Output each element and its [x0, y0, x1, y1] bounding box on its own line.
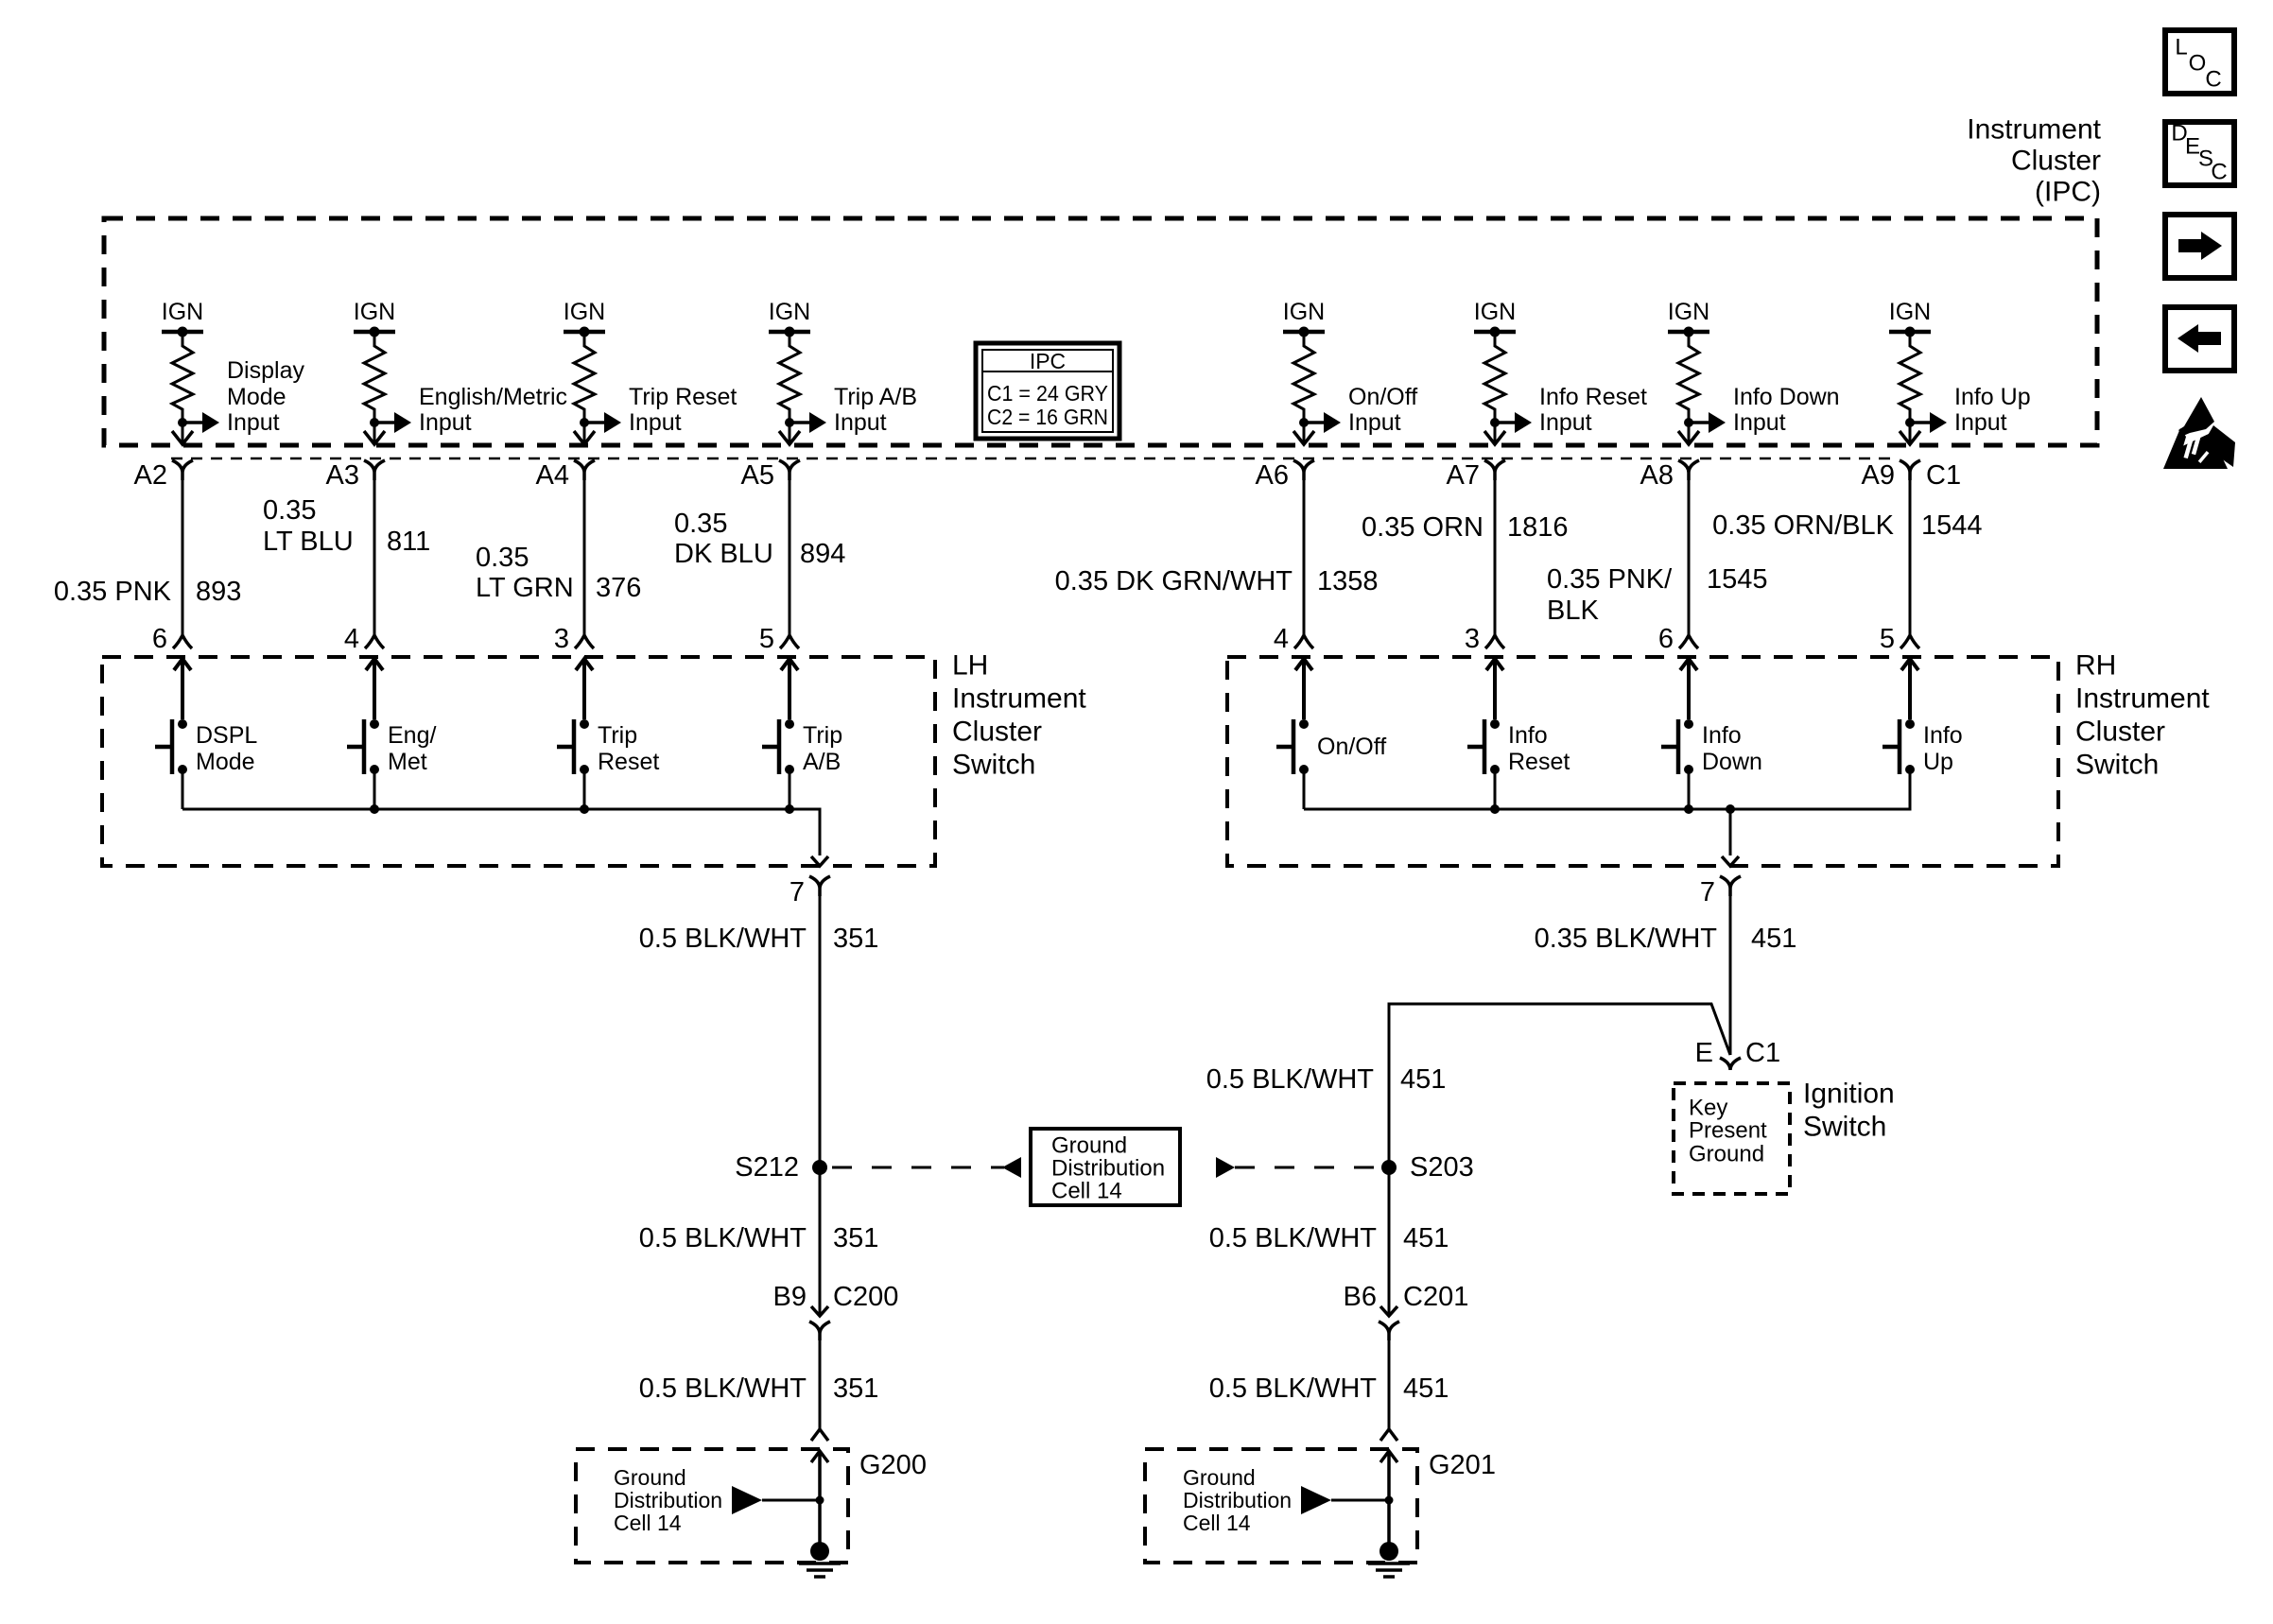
svg-text:7: 7 — [1700, 877, 1715, 907]
svg-text:451: 451 — [1403, 1223, 1449, 1253]
svg-text:Cluster: Cluster — [952, 717, 1042, 748]
wire: pin 5 into switch — [781, 659, 798, 719]
svg-text:3: 3 — [554, 624, 569, 654]
connector C1 boundary dashed line — [171, 458, 1899, 460]
wire: R6 to IPC pin A7 — [1494, 423, 1497, 443]
IGN supply node (A7 column) — [1474, 299, 1516, 337]
svg-text:C1 = 24 GRY: C1 = 24 GRY — [987, 381, 1108, 406]
svg-text:Ground: Ground — [1051, 1133, 1127, 1159]
arrow: LH bus exits box at pin 7 — [811, 856, 828, 866]
svg-text:Input: Input — [1733, 409, 1786, 436]
pushbutton switch: DSPL Mode switch — [155, 719, 257, 775]
svg-text:Info: Info — [1702, 722, 1742, 749]
svg-text:351: 351 — [833, 1223, 878, 1253]
connector pin 6 (switch connector) — [173, 635, 192, 648]
connector pin A6 (IPC C1 female) — [1293, 460, 1314, 480]
svg-text:IGN: IGN — [564, 299, 605, 325]
wire: pin 6 into switch — [174, 659, 191, 719]
svg-text:Reset: Reset — [1508, 749, 1570, 775]
connector pin A2 (IPC C1 female) — [172, 460, 193, 480]
arrow inside G201 — [1301, 1486, 1331, 1514]
svg-text:G201: G201 — [1429, 1450, 1496, 1480]
svg-text:1544: 1544 — [1921, 510, 1983, 541]
pushbutton switch: Info Up switch — [1883, 719, 1963, 775]
svg-text:894: 894 — [800, 539, 845, 569]
svg-text:Cluster: Cluster — [2075, 717, 2165, 748]
label: English/Metric Input — [419, 384, 567, 436]
wire: RH switch common bus — [1304, 769, 1910, 809]
IGN supply node (A8 column) — [1668, 299, 1709, 337]
svg-text:Trip A/B: Trip A/B — [834, 384, 917, 410]
node: R2 output junction — [370, 418, 379, 427]
svg-text:0.5 BLK/WHT: 0.5 BLK/WHT — [639, 924, 807, 954]
svg-text:0.5 BLK/WHT: 0.5 BLK/WHT — [1206, 1064, 1375, 1095]
icon: ESD sensitive symbol — [2163, 397, 2235, 469]
wire 351 S212 to C200 — [819, 1167, 822, 1316]
wire 1545 (0.35 PNK/ BLK) — [1688, 473, 1691, 635]
svg-text:On/Off: On/Off — [1348, 384, 1417, 410]
wire: pin 3 into switch — [1486, 659, 1503, 719]
svg-text:Switch: Switch — [2075, 750, 2159, 781]
wire 893 (0.35 PNK) — [182, 473, 184, 635]
svg-text:IPC: IPC — [1030, 349, 1066, 373]
connector pin 4 (switch connector) — [1294, 635, 1313, 648]
Key Present Ground dashed box (Ignition Switch) — [1674, 1083, 1790, 1194]
connector pin 7 (LH switch) — [809, 876, 830, 896]
wire: dashed reference Ground Distribution to S203 — [1216, 1157, 1235, 1178]
wire: R1 to IPC pin A2 — [182, 423, 184, 443]
wire into G201 ground — [1380, 1451, 1397, 1551]
IGN supply node (A4 column) — [564, 299, 605, 337]
svg-text:IGN: IGN — [162, 299, 203, 325]
svg-text:Input: Input — [1539, 409, 1592, 436]
connector B6 C201 (in-line) — [1380, 1306, 1397, 1316]
svg-text:Info Up: Info Up — [1954, 384, 2031, 410]
IPC connector legend box (C1=24 GRY, C2=16 GRN) — [976, 343, 1119, 439]
wire: LH switch common bus — [182, 809, 820, 855]
svg-text:0.35 DK GRN/WHT: 0.35 DK GRN/WHT — [1055, 566, 1293, 596]
wire 351 (0.5 BLK/WHT) pin7 to S212 — [819, 896, 822, 1167]
pushbutton switch: On/Off switch — [1276, 719, 1386, 774]
svg-text:Cell 14: Cell 14 — [614, 1511, 682, 1535]
icon: LOC button — [2165, 30, 2234, 94]
svg-text:Ground: Ground — [1689, 1142, 1764, 1167]
label: Info Reset Input — [1539, 384, 1647, 436]
IGN supply node (A3 column) — [354, 299, 395, 337]
arrow: RH bus exits box at pin 7 — [1722, 856, 1739, 866]
svg-text:Switch: Switch — [952, 750, 1035, 781]
svg-text:Cluster: Cluster — [2011, 146, 2101, 177]
svg-text:E: E — [1695, 1038, 1713, 1068]
svg-text:A6: A6 — [1256, 460, 1289, 491]
resistor R7 (pull-up to IGN) — [1678, 332, 1699, 420]
svg-text:Switch: Switch — [1803, 1112, 1886, 1143]
svg-text:1545: 1545 — [1707, 564, 1768, 595]
pushbutton switch: Eng/Met switch — [347, 719, 436, 775]
label: Trip Reset Input — [629, 384, 737, 436]
connector at G200 entry — [811, 1429, 828, 1441]
svg-text:BLK: BLK — [1547, 596, 1599, 626]
svg-text:C1: C1 — [1926, 460, 1961, 491]
svg-text:1358: 1358 — [1317, 566, 1379, 596]
label: LH Instrument Cluster Switch — [952, 650, 1086, 781]
svg-text:6: 6 — [1658, 624, 1674, 654]
resistor R1 (pull-up to IGN) — [172, 332, 193, 420]
resistor R2 (pull-up to IGN) — [364, 332, 385, 420]
label: On/Off Input — [1348, 384, 1417, 436]
ground G200 dashed box — [576, 1449, 848, 1563]
svg-text:0.5 BLK/WHT: 0.5 BLK/WHT — [1209, 1223, 1378, 1253]
wire: pin 4 into switch — [366, 659, 383, 719]
label: Ground Distribution Cell 14 (G200) — [614, 1465, 722, 1535]
icon: DESC button — [2165, 121, 2234, 186]
svg-text:B6: B6 — [1344, 1282, 1377, 1312]
wire: Trip Reset switch to common bus — [583, 769, 586, 809]
wire: pin 5 into switch — [1901, 659, 1918, 719]
wire: On/Off switch to common bus — [1303, 769, 1306, 809]
wire: Info Reset switch to common bus — [1494, 769, 1497, 809]
svg-text:Instrument: Instrument — [1967, 114, 2101, 146]
svg-text:811: 811 — [387, 527, 430, 557]
svg-text:451: 451 — [1400, 1064, 1446, 1095]
svg-text:Key: Key — [1689, 1096, 1727, 1121]
signal arrow: Trip A/B input — [789, 421, 809, 424]
svg-text:C201: C201 — [1403, 1282, 1468, 1312]
pushbutton switch: Trip Reset switch — [557, 719, 659, 775]
connector pin A7 (IPC C1 female) — [1484, 460, 1505, 480]
RH Instrument Cluster Switch dashed box — [1227, 657, 2058, 866]
node: bus junction at Eng/Met — [370, 804, 379, 814]
svg-text:7: 7 — [789, 877, 805, 907]
wire: pin 4 into switch — [1295, 659, 1312, 719]
svg-text:English/Metric: English/Metric — [419, 384, 567, 410]
wire 451 riser S203 to E C1 — [1389, 1004, 1730, 1161]
svg-text:376: 376 — [596, 573, 641, 603]
svg-text:Input: Input — [227, 409, 280, 436]
resistor R6 (pull-up to IGN) — [1484, 332, 1505, 420]
icon: right arrow button — [2165, 215, 2234, 278]
label: RH Instrument Cluster Switch — [2075, 650, 2210, 781]
svg-text:Trip: Trip — [598, 722, 637, 749]
svg-text:0.35: 0.35 — [674, 509, 727, 539]
connector pin A8 (IPC C1 female) — [1678, 460, 1699, 480]
wire 451 C201 to G201 — [1388, 1340, 1391, 1429]
label: Ignition Switch — [1803, 1079, 1895, 1143]
node: bus junction at Trip A/B — [785, 804, 794, 814]
IGN supply node (A9 column) — [1889, 299, 1931, 337]
connector pin A3 (IPC C1 female) — [364, 460, 385, 480]
label: Ground Distribution Cell 14 (G201) — [1183, 1465, 1292, 1535]
svg-text:Instrument: Instrument — [2075, 683, 2210, 715]
node: R8 output junction — [1905, 418, 1915, 427]
label: Trip A/B Input — [834, 384, 917, 436]
svg-text:0.35: 0.35 — [476, 543, 529, 573]
signal arrow: Info Reset input — [1495, 421, 1515, 424]
wire: R8 to IPC pin A9 — [1909, 423, 1912, 443]
wire 811 (0.35 LT BLU) — [373, 473, 376, 635]
wire: Eng/Met switch to common bus — [373, 769, 376, 809]
svg-text:IGN: IGN — [1889, 299, 1931, 325]
IGN supply node (A2 column) — [162, 299, 203, 337]
svg-text:LT GRN: LT GRN — [476, 573, 574, 603]
wire: DSPL Mode switch to common bus — [182, 769, 184, 809]
svg-text:Up: Up — [1923, 749, 1953, 775]
svg-text:Input: Input — [1954, 409, 2007, 436]
svg-text:A9: A9 — [1862, 460, 1895, 491]
pushbutton switch: Info Down switch — [1661, 719, 1762, 775]
resistor R8 (pull-up to IGN) — [1900, 332, 1920, 420]
svg-text:(IPC): (IPC) — [2035, 177, 2101, 208]
signal arrow: Trip Reset input — [584, 421, 604, 424]
svg-text:Ignition: Ignition — [1803, 1079, 1895, 1110]
svg-text:Present: Present — [1689, 1118, 1767, 1144]
node: R4 output junction — [785, 418, 794, 427]
svg-text:C: C — [2211, 160, 2227, 185]
svg-text:451: 451 — [1403, 1373, 1449, 1404]
label: Display Mode Input — [227, 357, 304, 436]
svg-text:L: L — [2175, 35, 2187, 60]
wire 1358 (0.35 DK GRN/WHT) — [1303, 473, 1306, 635]
wire: dashed reference S212 to Ground Distribution — [832, 1166, 1004, 1169]
node: R1 output junction — [178, 418, 187, 427]
signal arrow: Info Up input — [1910, 421, 1930, 424]
connector pin 3 (switch connector) — [575, 635, 594, 648]
IGN supply node (A5 column) — [769, 299, 810, 337]
svg-text:A/B: A/B — [803, 749, 841, 775]
title: Instrument Cluster (IPC) — [1967, 114, 2101, 208]
svg-text:C200: C200 — [833, 1282, 898, 1312]
Instrument Cluster (IPC) dashed box — [104, 218, 2097, 445]
svg-text:Reset: Reset — [598, 749, 659, 775]
wire: R4 to IPC pin A5 — [789, 423, 791, 443]
wire: R5 to IPC pin A6 — [1303, 423, 1306, 443]
wire 1544 (0.35 ORN/BLK) — [1909, 473, 1912, 635]
svg-text:Cell 14: Cell 14 — [1183, 1511, 1251, 1535]
node S203 (splice) — [1381, 1160, 1397, 1175]
node S212 (splice) — [812, 1160, 827, 1175]
connector E of C1 (ignition switch) — [1720, 1058, 1741, 1070]
svg-text:IGN: IGN — [769, 299, 810, 325]
svg-text:0.5 BLK/WHT: 0.5 BLK/WHT — [639, 1373, 807, 1404]
svg-text:3: 3 — [1465, 624, 1480, 654]
resistor R4 (pull-up to IGN) — [779, 332, 800, 420]
wire: Trip A/B switch to common bus — [789, 769, 791, 809]
svg-text:S203: S203 — [1410, 1152, 1474, 1183]
svg-text:A8: A8 — [1640, 460, 1674, 491]
svg-text:351: 351 — [833, 924, 878, 954]
node: bus junction at Trip Reset — [580, 804, 589, 814]
svg-text:Trip: Trip — [803, 722, 842, 749]
svg-text:O: O — [2189, 51, 2207, 77]
svg-text:Trip Reset: Trip Reset — [629, 384, 737, 410]
wire into G200 ground — [811, 1451, 828, 1551]
svg-text:Distribution: Distribution — [1051, 1156, 1165, 1182]
svg-text:IGN: IGN — [1474, 299, 1516, 325]
svg-text:IGN: IGN — [354, 299, 395, 325]
connector pin 6 (switch connector) — [1679, 635, 1698, 648]
svg-text:0.35 ORN: 0.35 ORN — [1362, 512, 1484, 543]
svg-text:On/Off: On/Off — [1317, 734, 1386, 760]
svg-text:351: 351 — [833, 1373, 878, 1404]
label: Info Up Input — [1954, 384, 2031, 436]
svg-text:5: 5 — [1880, 624, 1895, 654]
signal arrow: On/Off input — [1304, 421, 1324, 424]
node: R7 output junction — [1684, 418, 1693, 427]
svg-text:Mode: Mode — [227, 384, 286, 410]
label: connector C1 — [1926, 460, 1961, 491]
svg-text:Info: Info — [1923, 722, 1963, 749]
svg-text:A2: A2 — [134, 460, 167, 491]
node: G201 tap junction — [1385, 1496, 1394, 1505]
svg-text:Info Down: Info Down — [1733, 384, 1840, 410]
resistor R5 (pull-up to IGN) — [1293, 332, 1314, 420]
ground symbol G201 — [1368, 1542, 1410, 1577]
node: bus junction at Info Reset — [1490, 804, 1500, 814]
svg-text:Down: Down — [1702, 749, 1762, 775]
wire 351 C200 to G200 — [819, 1340, 822, 1429]
svg-text:IGN: IGN — [1668, 299, 1709, 325]
connector pin A5 (IPC C1 female) — [779, 460, 800, 480]
wire: pin 3 into switch — [576, 659, 593, 719]
svg-text:IGN: IGN — [1283, 299, 1325, 325]
svg-text:A3: A3 — [326, 460, 359, 491]
svg-text:Ground: Ground — [1183, 1465, 1256, 1490]
wire 1816 (0.35 ORN) — [1494, 473, 1497, 635]
svg-text:6: 6 — [152, 624, 167, 654]
svg-text:451: 451 — [1751, 924, 1796, 954]
wire 451 (0.35 BLK/WHT) pin7 to E C1 — [1729, 896, 1732, 1055]
svg-text:Distribution: Distribution — [1183, 1488, 1292, 1512]
connector pin A4 (IPC C1 female) — [574, 460, 595, 480]
connector pin 5 (switch connector) — [1900, 635, 1919, 648]
resistor R3 (pull-up to IGN) — [574, 332, 595, 420]
svg-text:DK BLU: DK BLU — [674, 539, 773, 569]
svg-text:0.35 PNK/: 0.35 PNK/ — [1547, 564, 1673, 595]
wire 376 (0.35 LT GRN) — [583, 473, 586, 635]
ground symbol G200 — [799, 1542, 841, 1577]
svg-text:Distribution: Distribution — [614, 1488, 722, 1512]
Ground Distribution Cell 14 reference box (left) — [1031, 1129, 1180, 1205]
svg-text:RH: RH — [2075, 650, 2116, 682]
node: R6 output junction — [1490, 418, 1500, 427]
svg-text:Input: Input — [1348, 409, 1401, 436]
arrow inside G200 — [732, 1486, 762, 1514]
svg-text:4: 4 — [1274, 624, 1289, 654]
svg-text:Input: Input — [629, 409, 682, 436]
svg-text:4: 4 — [344, 624, 359, 654]
connector pin 5 (switch connector) — [780, 635, 799, 648]
IGN supply node (A6 column) — [1283, 299, 1325, 337]
wire: pin 6 into switch — [1680, 659, 1697, 719]
svg-text:0.35 PNK: 0.35 PNK — [54, 577, 172, 607]
svg-text:Met: Met — [388, 749, 427, 775]
svg-text:Ground: Ground — [614, 1465, 686, 1490]
LH Instrument Cluster Switch dashed box — [102, 657, 935, 866]
svg-text:0.5 BLK/WHT: 0.5 BLK/WHT — [639, 1223, 807, 1253]
connector B9 C200 (in-line) — [811, 1306, 828, 1316]
svg-text:Info Reset: Info Reset — [1539, 384, 1647, 410]
svg-text:5: 5 — [759, 624, 774, 654]
node: R5 output junction — [1299, 418, 1309, 427]
wire 451 S203 to C201 — [1388, 1167, 1391, 1316]
connector pin 7 (RH switch) — [1720, 876, 1741, 896]
connector at G201 entry — [1380, 1429, 1397, 1441]
svg-text:Input: Input — [834, 409, 887, 436]
svg-text:DSPL: DSPL — [196, 722, 257, 749]
wire: Info Up switch to common bus — [1909, 769, 1912, 809]
signal arrow: Display input — [182, 421, 202, 424]
svg-text:C1: C1 — [1745, 1038, 1780, 1068]
svg-text:1816: 1816 — [1507, 512, 1569, 543]
svg-text:0.35: 0.35 — [263, 495, 316, 526]
wire: R7 to IPC pin A8 — [1688, 423, 1691, 443]
svg-text:C2 = 16 GRN: C2 = 16 GRN — [987, 405, 1108, 429]
svg-text:Input: Input — [419, 409, 472, 436]
pushbutton switch: Trip A/B switch — [762, 719, 842, 775]
svg-text:Info: Info — [1508, 722, 1548, 749]
svg-text:A4: A4 — [536, 460, 569, 491]
icon: left arrow button — [2165, 307, 2234, 371]
svg-text:B9: B9 — [773, 1282, 807, 1312]
svg-text:LT BLU: LT BLU — [263, 527, 354, 557]
connector pin A9 (IPC C1 female) — [1900, 460, 1920, 480]
svg-text:LH: LH — [952, 650, 988, 682]
svg-text:C: C — [2205, 67, 2221, 93]
signal arrow: Info Down input — [1689, 421, 1709, 424]
ground G201 dashed box — [1145, 1449, 1417, 1563]
wire: Info Down switch to common bus — [1688, 769, 1691, 809]
wire 894 (0.35 DK BLU) — [789, 473, 791, 635]
label: Info Down Input — [1733, 384, 1840, 436]
svg-text:S212: S212 — [735, 1152, 799, 1183]
svg-text:Mode: Mode — [196, 749, 255, 775]
connector pin 3 (switch connector) — [1485, 635, 1504, 648]
wire: R3 to IPC pin A4 — [583, 423, 586, 443]
signal arrow: English/Metric input — [374, 421, 394, 424]
wire: R2 to IPC pin A3 — [373, 423, 376, 443]
node: bus junction at exit wire — [1726, 804, 1735, 814]
node: G200 tap junction — [816, 1496, 824, 1505]
svg-text:Cell 14: Cell 14 — [1051, 1179, 1122, 1204]
svg-text:G200: G200 — [859, 1450, 927, 1480]
svg-text:A7: A7 — [1447, 460, 1480, 491]
svg-text:A5: A5 — [741, 460, 774, 491]
connector pin 4 (switch connector) — [365, 635, 384, 648]
svg-text:Eng/: Eng/ — [388, 722, 436, 749]
svg-text:0.35 ORN/BLK: 0.35 ORN/BLK — [1712, 510, 1894, 541]
svg-text:Instrument: Instrument — [952, 683, 1086, 715]
pushbutton switch: Info Reset switch — [1467, 719, 1570, 775]
svg-text:893: 893 — [196, 577, 241, 607]
node: bus junction at Info Down — [1684, 804, 1693, 814]
svg-text:0.5 BLK/WHT: 0.5 BLK/WHT — [1209, 1373, 1378, 1404]
node: R3 output junction — [580, 418, 589, 427]
svg-text:Display: Display — [227, 357, 304, 384]
svg-text:0.35 BLK/WHT: 0.35 BLK/WHT — [1535, 924, 1718, 954]
